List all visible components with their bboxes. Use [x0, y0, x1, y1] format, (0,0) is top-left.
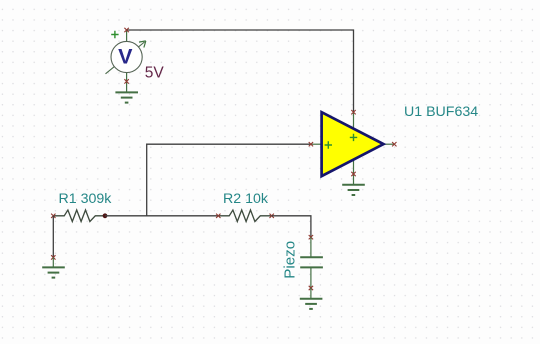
- pin marker piezo bottom: [309, 286, 313, 290]
- wire R1 left terminal down to ground: [52, 216, 54, 258]
- op-amp U1 BUF634: [311, 112, 394, 185]
- ground below V1: [115, 92, 138, 102]
- svg-text:R1 309k: R1 309k: [59, 191, 113, 207]
- pin marker U1 power: [351, 110, 355, 114]
- wire R2 to piezo capacitor: [272, 216, 311, 237]
- ground below piezo: [300, 288, 323, 309]
- svg-text:Piezo: Piezo: [282, 241, 299, 279]
- pin marker V1 - terminal: [124, 79, 128, 83]
- wire junction to R2: [105, 215, 218, 217]
- pin marker V1 + terminal: [124, 28, 128, 32]
- voltage source V1: [106, 30, 146, 92]
- svg-text:5V: 5V: [145, 64, 165, 81]
- resistor R2: [218, 210, 271, 222]
- svg-text:V: V: [118, 44, 133, 68]
- svg-text:R2 10k: R2 10k: [223, 191, 269, 207]
- ground below U1: [342, 185, 365, 195]
- resistor R1: [53, 210, 105, 222]
- capacitor Piezo: [300, 237, 323, 288]
- svg-text:U1 BUF634: U1 BUF634: [404, 104, 478, 120]
- pin marker U1 ground: [351, 172, 355, 176]
- pin marker U1 input: [309, 142, 313, 146]
- pin marker U1 output: [392, 142, 396, 146]
- pin marker ground below R1: [51, 255, 55, 259]
- junction node at R1 right: [103, 213, 108, 218]
- ground below R1: [42, 257, 65, 277]
- pin marker R1 left: [51, 214, 55, 218]
- wire junction up to U1 input: [147, 144, 311, 216]
- wire V1+ to U1 power pin: [127, 30, 354, 112]
- pin marker piezo top: [309, 235, 313, 239]
- pin marker R2 right: [270, 214, 274, 218]
- pin marker R2 left: [216, 214, 220, 218]
